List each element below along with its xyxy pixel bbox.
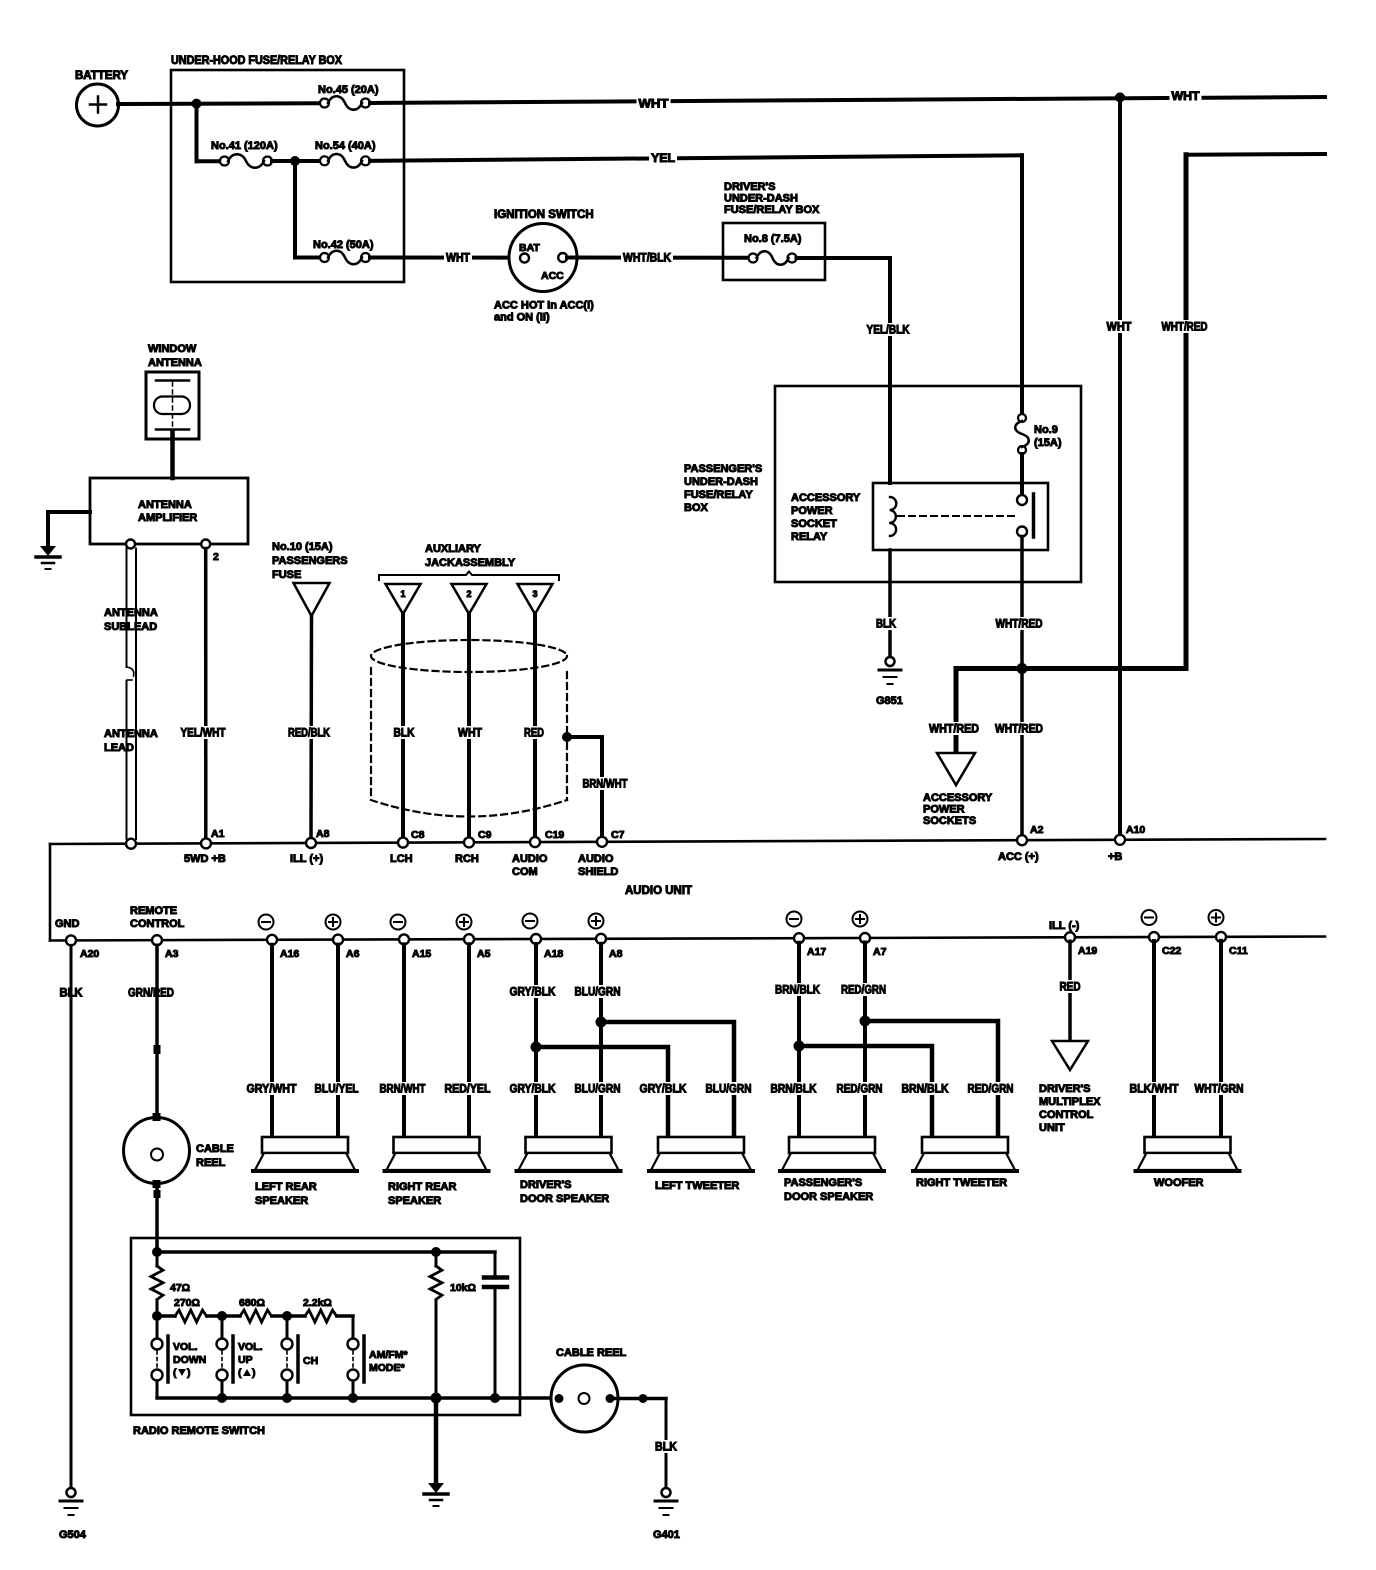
wire RED/GRN branch to right tweeter xyxy=(865,1021,998,1137)
svg-text:RED: RED xyxy=(1060,982,1081,994)
svg-text:AUDIO: AUDIO xyxy=(578,853,614,865)
wire WHT from No.42 to ignition switch xyxy=(370,256,520,260)
label BLK (coil ground) xyxy=(874,617,898,631)
svg-text:No.10 (15A): No.10 (15A) xyxy=(272,541,333,553)
wire battery to fuse No.45 (WHT feed) xyxy=(118,101,319,106)
svg-text:DRIVER'S: DRIVER'S xyxy=(724,181,776,193)
svg-text:A19: A19 xyxy=(1078,945,1097,957)
pin A19 / ILL(-) xyxy=(1049,920,1097,957)
svg-text:1: 1 xyxy=(400,589,405,599)
svg-text:COM: COM xyxy=(512,866,538,878)
svg-text:A8: A8 xyxy=(316,828,330,840)
wire YEL from fuse No.54 to x1022 xyxy=(370,155,1022,161)
svg-text:ILL (+): ILL (+) xyxy=(290,853,323,865)
svg-text:C22: C22 xyxy=(1162,945,1181,957)
svg-text:RED/YEL: RED/YEL xyxy=(445,1084,491,1096)
junction accessory feed node xyxy=(1017,663,1028,674)
passenger's door speaker xyxy=(780,1137,884,1203)
svg-text:ANTENNA: ANTENNA xyxy=(104,728,158,740)
label BLU/YEL xyxy=(313,1082,361,1096)
left rear speaker xyxy=(253,1137,357,1207)
svg-text:VOL.: VOL. xyxy=(238,1341,263,1353)
resistor 270 ohm xyxy=(174,1297,206,1322)
svg-text:GND: GND xyxy=(55,918,80,930)
svg-text:GRY/BLK: GRY/BLK xyxy=(640,1084,688,1096)
svg-text:UP: UP xyxy=(238,1354,253,1366)
pin C19 / AUDIO COM xyxy=(512,829,564,878)
pin C8 / LCH xyxy=(390,829,425,865)
wire BRN/BLK branch to right tweeter xyxy=(799,1046,932,1137)
svg-text:C11: C11 xyxy=(1229,945,1248,957)
svg-text:ACC: ACC xyxy=(541,270,564,282)
driver's under-dash fuse/relay box xyxy=(723,181,825,280)
wire 10k to chassis ground xyxy=(424,1398,448,1506)
svg-text:LEAD: LEAD xyxy=(104,742,134,754)
label WHT/RED (sockets drop) xyxy=(927,722,981,736)
ground G504 xyxy=(59,1488,87,1541)
wire GRY/BLK A18 to driver's door speaker xyxy=(534,944,538,1137)
switch CH xyxy=(282,1336,319,1398)
label YEL/BLK xyxy=(865,323,912,337)
label RED/GRN (tweeter) xyxy=(966,1082,1016,1096)
label WHT (top bus right) xyxy=(1170,90,1202,104)
fuse No.42 (50A) xyxy=(313,239,374,264)
driver's door speaker xyxy=(517,1137,621,1205)
cable reel (steering) xyxy=(124,1113,234,1188)
switch VOL DOWN xyxy=(152,1336,207,1398)
svg-text:CABLE REEL: CABLE REEL xyxy=(556,1347,627,1359)
wire WHT/BLK ignition to driver's box xyxy=(567,256,748,260)
junction node between No.41 and No.54 xyxy=(272,156,319,166)
svg-text:BLK/WHT: BLK/WHT xyxy=(1130,1084,1179,1096)
wire BRN/BLK A17 to passenger's door speaker xyxy=(797,943,801,1137)
svg-text:WINDOW: WINDOW xyxy=(148,343,197,355)
junction GRY/BLK tweeter tap xyxy=(531,1042,542,1053)
svg-text:BLU/GRN: BLU/GRN xyxy=(575,987,621,999)
svg-text:LEFT TWEETER: LEFT TWEETER xyxy=(655,1180,739,1192)
wire GRY/WHT A16 to left rear speaker xyxy=(270,945,274,1137)
svg-text:PASSENGERS: PASSENGERS xyxy=(272,555,348,567)
svg-text:LEFT REAR: LEFT REAR xyxy=(255,1181,317,1193)
wire RED/BLK fuse No.10 to A8/ILL(+) xyxy=(309,616,313,839)
svg-text:2: 2 xyxy=(213,551,219,563)
svg-text:47Ω: 47Ω xyxy=(170,1282,190,1294)
svg-text:GRY/BLK: GRY/BLK xyxy=(510,1084,557,1096)
wire BRN/WHT A15 to right rear speaker xyxy=(402,944,406,1137)
svg-text:WHT/RED: WHT/RED xyxy=(1162,322,1208,334)
svg-text:ACCESSORY: ACCESSORY xyxy=(923,792,993,804)
aux jack connector 1 xyxy=(386,584,421,614)
wire WHT/RED top right to edge xyxy=(1186,152,1325,157)
wire cable reel to G401 xyxy=(615,1394,667,1488)
wire GRY/BLK branch to left tweeter xyxy=(536,1047,668,1137)
wire RED/YEL A5 to right rear speaker xyxy=(467,944,471,1137)
svg-text:WHT/RED: WHT/RED xyxy=(995,724,1043,736)
svg-text:CABLE: CABLE xyxy=(196,1143,234,1155)
ground G401 xyxy=(653,1488,680,1541)
wire WHT top bus to right edge xyxy=(370,97,1325,103)
label WHT (ignition feed) xyxy=(444,251,472,265)
junction VOL DOWN node xyxy=(152,1311,162,1321)
svg-text:No.9: No.9 xyxy=(1034,424,1058,436)
pin A5 (+) xyxy=(457,915,491,961)
svg-text:WHT/BLK: WHT/BLK xyxy=(623,253,672,265)
svg-text:ACC (+): ACC (+) xyxy=(998,851,1039,863)
svg-text:3: 3 xyxy=(532,589,537,599)
svg-text:RIGHT REAR: RIGHT REAR xyxy=(388,1181,457,1193)
svg-text:WHT: WHT xyxy=(639,99,669,111)
svg-text:RED/BLK: RED/BLK xyxy=(288,728,331,740)
svg-text:5WD +B: 5WD +B xyxy=(184,853,226,865)
wire BRN/WHT shield drain to C7 xyxy=(562,732,602,839)
svg-text:A17: A17 xyxy=(807,946,826,958)
svg-text:ANTENNA: ANTENNA xyxy=(104,607,158,619)
svg-text:+B: +B xyxy=(1108,851,1122,863)
fuse No.41 (120A) xyxy=(211,140,278,168)
label BLU/GRN (tweeter) xyxy=(704,1082,754,1096)
pin C22 (-) xyxy=(1142,910,1182,957)
wire WHT/GRN C11 to woofer xyxy=(1219,941,1223,1137)
svg-text:BLU/GRN: BLU/GRN xyxy=(706,1084,752,1096)
wire BLK A20 to G504 xyxy=(70,945,73,1488)
svg-text:A3: A3 xyxy=(165,948,179,960)
svg-text:CONTROL: CONTROL xyxy=(1039,1109,1094,1121)
svg-text:and ON (II): and ON (II) xyxy=(494,312,550,324)
svg-text:C19: C19 xyxy=(545,829,564,841)
svg-text:VOL.: VOL. xyxy=(173,1341,198,1353)
label RED/BLK xyxy=(286,726,332,740)
svg-text:WHT/RED: WHT/RED xyxy=(996,619,1043,631)
label GRY/BLK (A18) xyxy=(508,985,558,999)
aux jack connector 3 xyxy=(518,584,553,614)
label WHT (vertical +B wire) xyxy=(1105,320,1134,334)
svg-text:LCH: LCH xyxy=(390,853,413,865)
svg-text:BLK: BLK xyxy=(655,1442,678,1454)
svg-text:YEL: YEL xyxy=(651,153,675,165)
svg-text:680Ω: 680Ω xyxy=(239,1297,265,1309)
radio remote switch box xyxy=(131,1238,520,1437)
svg-text:WHT/GRN: WHT/GRN xyxy=(1195,1084,1244,1096)
svg-text:FUSE/RELAY BOX: FUSE/RELAY BOX xyxy=(724,204,820,216)
svg-text:270Ω: 270Ω xyxy=(174,1297,200,1309)
svg-text:BRN/BLK: BRN/BLK xyxy=(775,985,821,997)
wire WHT/RED accessory feed (thick) xyxy=(956,669,1186,753)
junction battery feed node xyxy=(192,99,202,109)
fuse No.10 (15A) passenger's fuse connector xyxy=(272,541,348,616)
under-hood fuse/relay box xyxy=(171,55,404,282)
svg-text:RELAY: RELAY xyxy=(791,531,828,543)
switch AM/FM MODE xyxy=(348,1336,409,1398)
pin A3 / REMOTE CONTROL xyxy=(130,905,185,960)
svg-text:FUSE: FUSE xyxy=(272,569,301,581)
svg-text:RADIO REMOTE SWITCH: RADIO REMOTE SWITCH xyxy=(133,1425,265,1437)
svg-text:2.2kΩ: 2.2kΩ xyxy=(303,1297,332,1309)
pin A8 (+) speaker xyxy=(589,914,623,961)
svg-text:MULTIPLEX: MULTIPLEX xyxy=(1039,1096,1101,1108)
svg-text:DOOR SPEAKER: DOOR SPEAKER xyxy=(784,1191,873,1203)
pin A20 / GND xyxy=(55,918,99,960)
wire WHT vertical down to +B (A10) xyxy=(1118,97,1122,835)
pin A17 (-) xyxy=(787,912,827,959)
label BRN/BLK (tweeter) xyxy=(900,1082,951,1096)
label BRN/BLK (A17) xyxy=(773,983,822,997)
wire BLU/GRN branch to left tweeter xyxy=(601,1022,734,1137)
svg-text:ANTENNA: ANTENNA xyxy=(138,499,192,511)
svg-text:(15A): (15A) xyxy=(1034,437,1062,449)
svg-text:GRY/BLK: GRY/BLK xyxy=(510,987,557,999)
shield around aux wires (dashed) xyxy=(371,640,567,817)
resistor row wire xyxy=(157,1311,353,1321)
label RED/YEL xyxy=(443,1082,493,1096)
svg-text:WOOFER: WOOFER xyxy=(1154,1177,1204,1189)
label WHT (aux) xyxy=(456,726,484,740)
wire WHT/RED relay contact down to ACC(+) A2 xyxy=(1020,537,1024,837)
ground G851 xyxy=(876,657,903,707)
wire BLK/WHT C22 to woofer xyxy=(1152,941,1156,1137)
pin A1 / 5WD +B xyxy=(184,828,226,865)
svg-text:C8: C8 xyxy=(411,829,425,841)
wire window antenna to amplifier xyxy=(170,431,175,478)
label YEL/WHT xyxy=(179,726,228,740)
wire BLU/GRN A8 to driver's door speaker xyxy=(599,944,603,1137)
fuse No.54 (40A) xyxy=(315,140,376,168)
svg-text:A5: A5 xyxy=(477,948,491,960)
svg-text:AM/FM*: AM/FM* xyxy=(369,1349,408,1361)
svg-text:GRN/RED: GRN/RED xyxy=(128,988,174,1000)
svg-text:A18: A18 xyxy=(544,948,563,960)
wire BLU/YEL A6 to left rear speaker xyxy=(336,945,340,1137)
svg-text:WHT: WHT xyxy=(1172,91,1200,103)
svg-text:CH: CH xyxy=(303,1355,318,1367)
label WHT/GRN (woofer) xyxy=(1193,1082,1246,1096)
svg-text:SOCKETS: SOCKETS xyxy=(923,815,976,827)
svg-text:G504: G504 xyxy=(59,1529,87,1541)
svg-text:): ) xyxy=(252,1367,256,1379)
label BLK (aux) xyxy=(392,726,417,740)
label RED (aux) xyxy=(522,726,546,740)
svg-text:A6: A6 xyxy=(346,948,360,960)
svg-text:AUXLIARY: AUXLIARY xyxy=(425,543,481,555)
svg-text:ACCESSORY: ACCESSORY xyxy=(791,492,861,504)
junction WHT node top right xyxy=(1115,92,1125,102)
label WHT/RED (right vertical) xyxy=(1160,320,1210,334)
svg-text:JACKASSEMBLY: JACKASSEMBLY xyxy=(425,557,516,569)
label RED/GRN (A7) xyxy=(839,983,888,997)
wire cable reel to radio remote switch xyxy=(154,1186,161,1252)
pin A7 (+) xyxy=(853,912,887,959)
wire YEL/WHT amplifier pin 2 to A1 xyxy=(204,549,208,839)
svg-text:A16: A16 xyxy=(280,948,299,960)
node antenna lead terminal xyxy=(126,839,136,849)
resistor 680 ohm xyxy=(239,1297,271,1322)
pin A8 / ILL(+) xyxy=(290,828,330,865)
wire switch column drops xyxy=(157,1316,353,1338)
wire BLK relay coil to ground xyxy=(888,550,892,657)
junction RED/GRN tweeter tap xyxy=(860,1016,871,1027)
right tweeter xyxy=(913,1137,1017,1189)
svg-text:POWER: POWER xyxy=(923,804,965,816)
label BLU/GRN (A8) xyxy=(573,985,623,999)
svg-text:MODE*: MODE* xyxy=(369,1362,406,1374)
svg-text:G401: G401 xyxy=(653,1529,680,1541)
window antenna xyxy=(146,343,202,439)
accessory power socket relay xyxy=(791,483,1048,550)
svg-text:IGNITION SWITCH: IGNITION SWITCH xyxy=(494,209,594,221)
passenger's under-dash fuse/relay box xyxy=(684,386,1081,582)
pin A15 (-) xyxy=(391,915,432,961)
svg-text:SPEAKER: SPEAKER xyxy=(255,1195,308,1207)
svg-text:A10: A10 xyxy=(1126,824,1145,836)
pin C7 / AUDIO SHIELD xyxy=(578,829,625,878)
svg-text:RED/GRN: RED/GRN xyxy=(841,985,886,997)
svg-text:YEL/WHT: YEL/WHT xyxy=(181,728,226,740)
svg-text:BLU/YEL: BLU/YEL xyxy=(315,1084,359,1096)
bottom rail wire xyxy=(157,1393,551,1404)
wire junction down to fuse No.41 xyxy=(197,104,221,162)
svg-text:WHT/RED: WHT/RED xyxy=(929,724,979,736)
label WHT/RED (relay output) xyxy=(994,617,1045,631)
svg-text:YEL/BLK: YEL/BLK xyxy=(867,325,911,337)
audio unit connector bus xyxy=(50,839,1325,941)
label RED (A19) xyxy=(1058,980,1083,994)
pin C9 / RCH xyxy=(455,829,492,865)
svg-text:SUBLEAD: SUBLEAD xyxy=(104,621,157,633)
svg-text:SPEAKER: SPEAKER xyxy=(388,1195,441,1207)
pin C11 (+) xyxy=(1209,910,1248,957)
svg-text:A2: A2 xyxy=(1030,824,1044,836)
svg-text:UNDER-DASH: UNDER-DASH xyxy=(684,476,758,488)
woofer xyxy=(1136,1137,1240,1189)
label BLK (A20) xyxy=(58,986,85,1000)
svg-text:SHIELD: SHIELD xyxy=(578,866,618,878)
svg-text:UNDER-DASH: UNDER-DASH xyxy=(724,193,798,205)
svg-text:A7: A7 xyxy=(873,946,887,958)
svg-text:RED/GRN: RED/GRN xyxy=(837,1084,883,1096)
wire GRN/RED A3 to cable reel xyxy=(154,945,161,1118)
svg-text:GRY/WHT: GRY/WHT xyxy=(247,1084,297,1096)
svg-text:CONTROL: CONTROL xyxy=(130,918,185,930)
svg-text:No.8 (7.5A): No.8 (7.5A) xyxy=(744,233,802,245)
svg-text:BRN/WHT: BRN/WHT xyxy=(380,1084,426,1096)
pin A10 / +B xyxy=(1108,824,1145,863)
label WHT/BLK xyxy=(621,251,673,265)
fuse No.45 (20A) xyxy=(318,84,379,110)
resistor 2.2k ohm xyxy=(303,1297,336,1322)
svg-text:AUDIO UNIT: AUDIO UNIT xyxy=(625,885,692,897)
svg-text:No.41 (120A): No.41 (120A) xyxy=(211,140,278,152)
junction BRN/BLK tweeter tap xyxy=(794,1041,805,1052)
ground antenna amplifier xyxy=(36,512,90,569)
label WHT/RED (A2 wire) xyxy=(993,722,1045,736)
label WHT (top bus mid) xyxy=(637,97,671,111)
label BRN/WHT xyxy=(581,777,630,791)
svg-text:WHT: WHT xyxy=(1107,322,1132,334)
svg-text:ANTENNA: ANTENNA xyxy=(148,357,202,369)
svg-text:RIGHT TWEETER: RIGHT TWEETER xyxy=(916,1177,1007,1189)
svg-text:POWER: POWER xyxy=(791,505,833,517)
svg-text:(: ( xyxy=(173,1367,177,1379)
left tweeter xyxy=(649,1137,753,1192)
svg-text:REEL: REEL xyxy=(196,1157,226,1169)
capacitor xyxy=(484,1252,507,1398)
svg-text:AUDIO: AUDIO xyxy=(512,853,548,865)
wire YEL/BLK driver's box to relay coil xyxy=(797,258,891,483)
label RED/GRN (speaker) xyxy=(835,1082,885,1096)
svg-text:WHT: WHT xyxy=(446,253,470,265)
svg-text:SOCKET: SOCKET xyxy=(791,518,837,530)
wire WHT aux jack 2 to C9/RCH xyxy=(467,614,471,839)
svg-text:BLK: BLK xyxy=(876,619,897,631)
svg-text:10kΩ: 10kΩ xyxy=(450,1282,476,1294)
label GRY/BLK (speaker) xyxy=(508,1082,558,1096)
svg-text:A1: A1 xyxy=(211,828,225,840)
svg-text:C7: C7 xyxy=(611,829,625,841)
svg-text:PASSENGER'S: PASSENGER'S xyxy=(684,463,762,475)
ignition switch xyxy=(494,209,594,292)
svg-text:RCH: RCH xyxy=(455,853,479,865)
svg-text:G851: G851 xyxy=(876,695,903,707)
wire RED A19 to multiplex control unit xyxy=(1068,941,1072,1041)
svg-text:): ) xyxy=(187,1367,191,1379)
svg-text:No.42 (50A): No.42 (50A) xyxy=(313,239,374,251)
svg-text:A15: A15 xyxy=(412,948,431,960)
svg-text:WHT: WHT xyxy=(458,728,482,740)
accessory power sockets connector xyxy=(923,753,993,827)
svg-text:No.54 (40A): No.54 (40A) xyxy=(315,140,376,152)
wire BLK aux jack 1 to C8/LCH xyxy=(401,614,405,839)
svg-text:DOWN: DOWN xyxy=(173,1354,206,1366)
label BRN/WHT xyxy=(378,1082,428,1096)
aux jack connector 2 xyxy=(452,584,487,614)
label BLK/WHT (woofer) xyxy=(1128,1082,1181,1096)
svg-text:BLK: BLK xyxy=(394,728,416,740)
resistor 10k ohm xyxy=(430,1252,476,1398)
svg-text:BAT: BAT xyxy=(519,242,540,254)
antenna amplifier xyxy=(90,478,248,563)
svg-text:BRN/WHT: BRN/WHT xyxy=(583,779,628,791)
pin A16 (-) xyxy=(259,915,300,961)
svg-text:RED: RED xyxy=(524,728,544,740)
pin A2 / ACC(+) xyxy=(998,824,1044,863)
svg-text:DOOR SPEAKER: DOOR SPEAKER xyxy=(520,1193,609,1205)
svg-text:BRN/BLK: BRN/BLK xyxy=(902,1084,950,1096)
fuse No.8 (7.5A) xyxy=(744,233,802,265)
svg-text:UNDER-HOOD FUSE/RELAY BOX: UNDER-HOOD FUSE/RELAY BOX xyxy=(171,55,342,67)
svg-text:ILL (-): ILL (-) xyxy=(1049,920,1080,932)
label GRN/RED (A3) xyxy=(126,986,176,1000)
top rail wire xyxy=(152,1247,495,1257)
note ACC HOT in ACC(I) and ON(II) xyxy=(494,300,594,324)
svg-text:REMOTE: REMOTE xyxy=(130,905,177,917)
junction BLU/GRN tweeter tap xyxy=(596,1017,607,1028)
label BLK (G401 wire) xyxy=(653,1440,679,1454)
wire fuse No.9 to relay contact xyxy=(1020,454,1024,495)
svg-text:BRN/BLK: BRN/BLK xyxy=(771,1084,818,1096)
svg-text:No.45 (20A): No.45 (20A) xyxy=(318,84,379,96)
svg-text:DRIVER'S: DRIVER'S xyxy=(1039,1083,1091,1095)
wire RED/GRN A7 to passenger's door speaker xyxy=(863,943,867,1138)
right rear speaker xyxy=(385,1137,489,1207)
svg-text:ACC HOT In ACC(I): ACC HOT In ACC(I) xyxy=(494,300,594,312)
svg-text:BLU/GRN: BLU/GRN xyxy=(575,1084,621,1096)
svg-text:A20: A20 xyxy=(80,948,99,960)
svg-text:BOX: BOX xyxy=(684,502,709,514)
svg-text:AMPLIFIER: AMPLIFIER xyxy=(138,512,197,524)
label GRY/WHT xyxy=(245,1082,299,1096)
pin A6 (+) xyxy=(326,915,360,961)
battery B1 xyxy=(75,70,128,126)
pin A18 (-) xyxy=(523,914,564,961)
